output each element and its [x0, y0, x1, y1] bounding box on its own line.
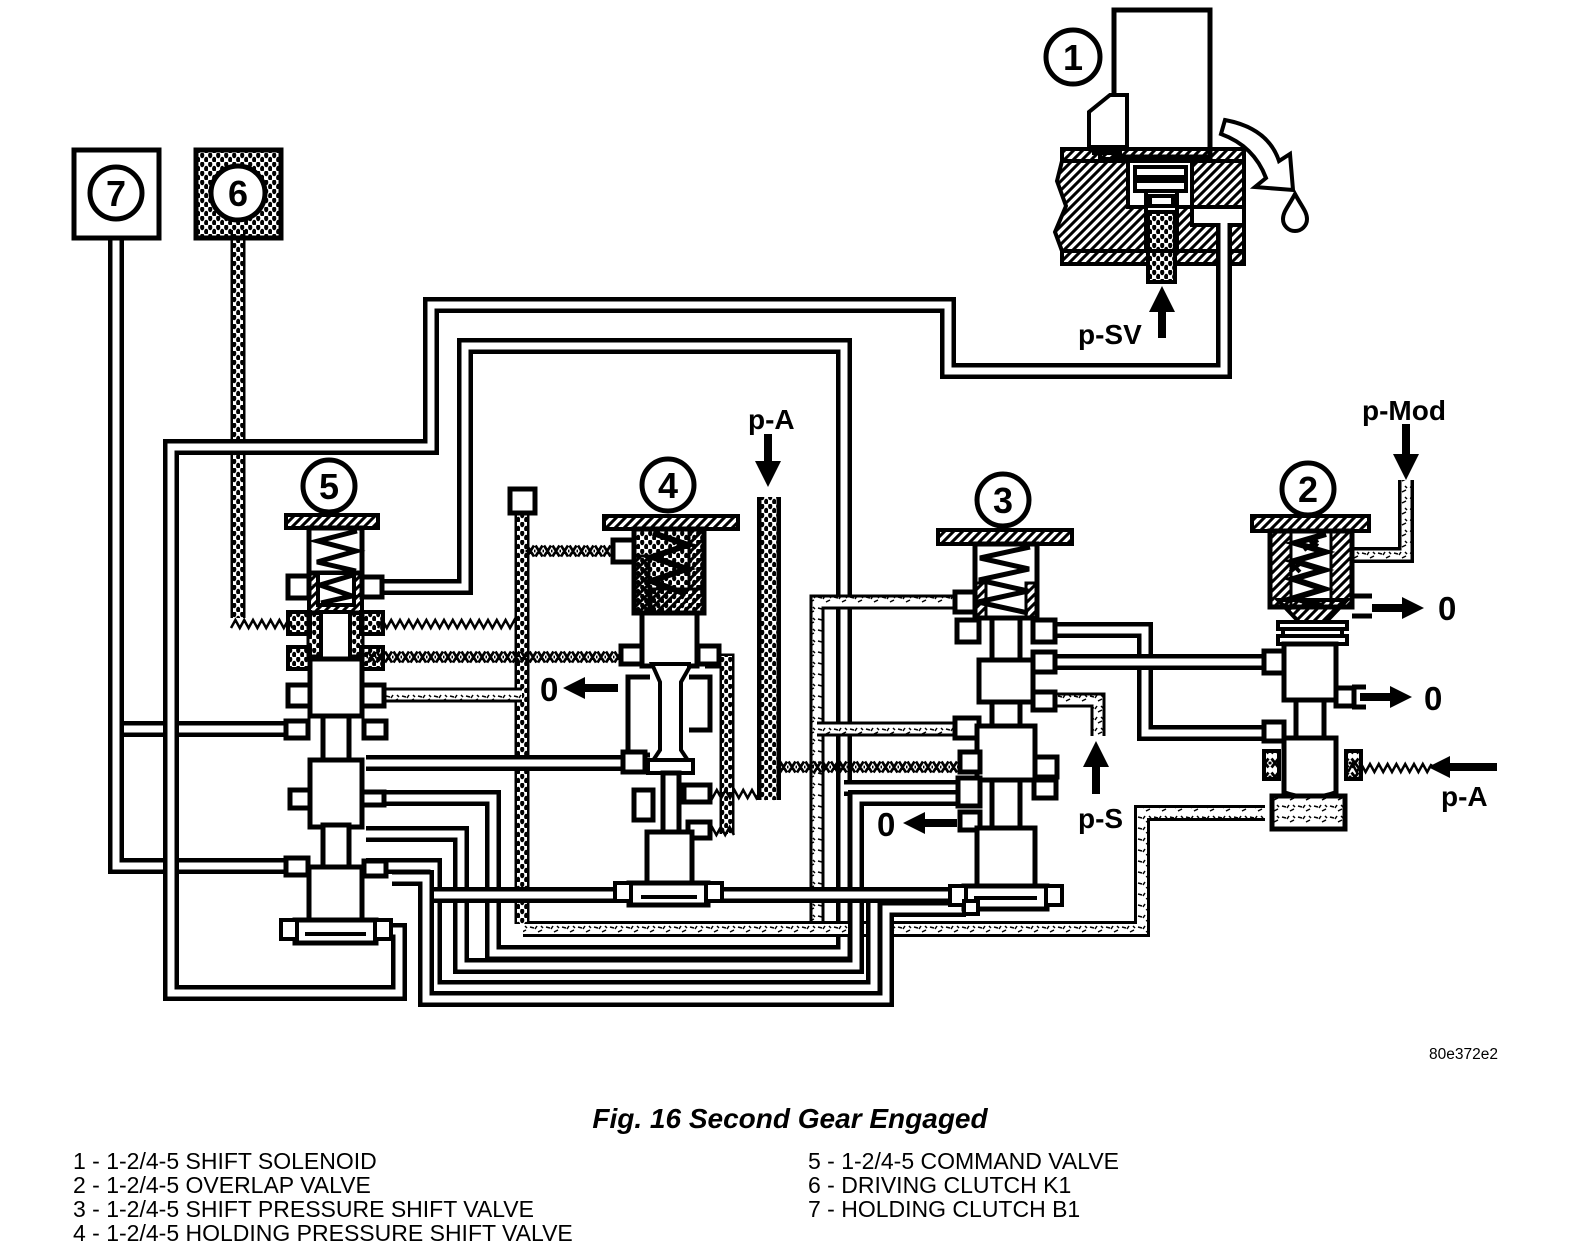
wire branch to valve3 port [844, 780, 962, 796]
port [288, 576, 309, 598]
port [286, 721, 308, 738]
valve 2 assembly [1252, 463, 1372, 829]
wire valve5 to valve4 port [367, 652, 624, 663]
wire valve5 to valve3 cap via nest 3 [366, 866, 952, 988]
wire holding clutch B1 to valve5 [116, 230, 298, 866]
port [362, 577, 382, 597]
port [613, 540, 634, 562]
wire valve4 cap line [426, 887, 964, 903]
wire p-S bottom trunk to valve2 [523, 813, 1265, 929]
arrow 0 valve4 [563, 677, 618, 699]
wire p-S to valve3 spring [817, 602, 960, 929]
port [364, 861, 386, 876]
wire valve4 right channel [705, 661, 727, 834]
port [290, 790, 310, 808]
wire valve5 loop via nest to spring port [366, 346, 844, 953]
wire valve5 low port to nest 4 [392, 878, 966, 999]
orifice square [510, 489, 535, 513]
arrow p-A left [1428, 756, 1497, 778]
valve 5 assembly [281, 460, 391, 943]
port [1035, 757, 1057, 777]
wire branch B1 to valve5 port [112, 721, 298, 737]
wire wavy into valve5 left [231, 620, 293, 628]
svg-text:p-A: p-A [748, 404, 795, 435]
port [364, 721, 386, 738]
svg-text:p-Mod: p-Mod [1362, 395, 1446, 426]
port [1033, 620, 1055, 642]
port [1264, 651, 1284, 673]
svg-text:p-S: p-S [1078, 803, 1123, 834]
port [960, 812, 980, 830]
port [1264, 722, 1284, 741]
svg-text:6 - DRIVING CLUTCH K1: 6 - DRIVING CLUTCH K1 [808, 1172, 1071, 1198]
svg-text:Fig. 16 Second Gear Engaged: Fig. 16 Second Gear Engaged [592, 1103, 988, 1134]
svg-text:0: 0 [1424, 680, 1442, 717]
arrow 0 valve3 [903, 812, 957, 834]
wire to valve4 spring housing [526, 546, 621, 557]
svg-text:p-SV: p-SV [1078, 319, 1142, 350]
port [634, 790, 653, 820]
port [1033, 692, 1055, 710]
svg-text:1: 1 [1063, 37, 1083, 78]
wire valve3 to valve2 top [1049, 654, 1264, 670]
wire p-S branch valve3 mid [817, 722, 960, 737]
arrow p-A down [755, 434, 781, 487]
port [960, 752, 980, 772]
svg-text:5 - 1-2/4-5 COMMAND VALVE: 5 - 1-2/4-5 COMMAND VALVE [808, 1148, 1119, 1174]
arrow p-S up [1083, 741, 1109, 794]
svg-text:0: 0 [540, 671, 558, 708]
wire p-SV from solenoid to valve5 bottom [171, 212, 1224, 993]
svg-text:5: 5 [319, 466, 339, 507]
wire valve5 to valve3 via nest 2 [366, 798, 962, 966]
wire from clutch K1 box down [231, 230, 246, 618]
port [623, 752, 645, 772]
wire p-S stub [1049, 700, 1098, 736]
port [1033, 652, 1055, 672]
wire valve5 to valve4 mid [366, 755, 633, 771]
port [286, 858, 308, 875]
holding clutch B1 box 7 [74, 150, 159, 238]
svg-text:1 - 1-2/4-5 SHIFT SOLENOID: 1 - 1-2/4-5 SHIFT SOLENOID [73, 1148, 377, 1174]
wire valve4 lower wavy [690, 827, 734, 835]
driving clutch K1 box 6 [196, 150, 281, 238]
svg-text:0: 0 [1438, 590, 1456, 627]
wire valve3 to valve2 mid [1049, 630, 1264, 733]
wire p-A supply channel [757, 497, 781, 800]
wire p-Mod channel [1352, 480, 1406, 555]
arrow p-SV up [1149, 286, 1175, 338]
svg-text:3 - 1-2/4-5 SHIFT PRESSURE SHI: 3 - 1-2/4-5 SHIFT PRESSURE SHIFT VALVE [73, 1196, 534, 1222]
svg-text:p-A: p-A [1441, 781, 1488, 812]
shift solenoid 1 [1046, 10, 1307, 282]
port [362, 685, 384, 706]
port [288, 685, 310, 706]
svg-text:7: 7 [106, 173, 126, 214]
port [955, 592, 975, 612]
port [698, 646, 719, 664]
port [957, 620, 979, 642]
port [684, 785, 710, 802]
svg-text:4: 4 [658, 465, 678, 506]
arrow 0 valve2 mid [1360, 686, 1412, 708]
svg-text:0: 0 [877, 806, 895, 843]
port [958, 778, 980, 806]
port [1336, 688, 1354, 706]
svg-text:2 - 1-2/4-5 OVERLAP VALVE: 2 - 1-2/4-5 OVERLAP VALVE [73, 1172, 371, 1198]
svg-text:4 - 1-2/4-5 HOLDING PRESSURE S: 4 - 1-2/4-5 HOLDING PRESSURE SHIFT VALVE [73, 1220, 573, 1246]
wire valve5 right speckle branch [366, 688, 522, 703]
svg-text:2: 2 [1298, 469, 1318, 510]
wire p-A to valve3 [779, 762, 959, 773]
svg-text:6: 6 [228, 173, 248, 214]
wire wavy valve5 right to node [378, 620, 523, 628]
port [362, 792, 384, 805]
wire node line below orifice [515, 511, 530, 924]
svg-text:80e372e2: 80e372e2 [1429, 1046, 1498, 1063]
valve 4 assembly [604, 459, 738, 905]
svg-text:7 - HOLDING CLUTCH B1: 7 - HOLDING CLUTCH B1 [808, 1196, 1080, 1222]
port [1034, 780, 1056, 798]
port [955, 718, 979, 738]
svg-text:3: 3 [993, 480, 1013, 521]
wire valve4 to p-A [686, 790, 778, 798]
wire p-A into valve2 [1348, 764, 1432, 772]
arrow 0 valve2 upper [1372, 597, 1424, 619]
valve 3 assembly [938, 474, 1072, 914]
arrow p-Mod down [1393, 424, 1419, 480]
port [688, 822, 710, 838]
port [621, 646, 642, 664]
